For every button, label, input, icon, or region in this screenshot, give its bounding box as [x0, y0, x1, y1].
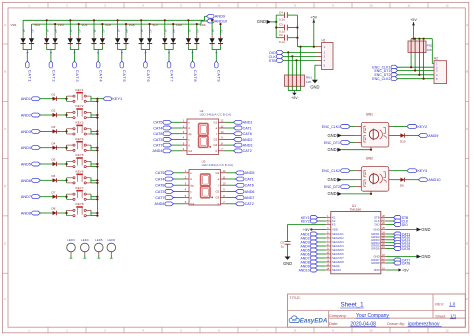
junction — [310, 228, 312, 230]
svg-text:LED3: LED3 — [67, 238, 75, 242]
ground GND — [310, 80, 319, 90]
wire — [342, 179, 355, 181]
net flag CAT2 — [234, 149, 252, 153]
svg-text:VD7: VD7 — [152, 23, 158, 27]
wire — [172, 138, 182, 140]
svg-text:C3: C3 — [279, 23, 283, 27]
wire — [398, 74, 434, 76]
wire +5V bar — [411, 38, 432, 40]
junction — [275, 26, 277, 28]
svg-text:A2: A2 — [54, 29, 58, 33]
svg-text:A2: A2 — [101, 29, 105, 33]
junction — [101, 23, 103, 25]
net flag GND — [257, 19, 271, 24]
dual diode VD7 — [152, 20, 176, 61]
junction — [65, 196, 67, 198]
wire — [318, 237, 326, 239]
svg-text:GRID6: GRID6 — [371, 247, 380, 251]
svg-text:SW2: SW2 — [366, 157, 373, 161]
junction — [418, 74, 420, 76]
junction — [370, 149, 372, 151]
wire — [172, 127, 182, 129]
net flag DIO — [394, 223, 409, 227]
svg-text:0.1u: 0.1u — [279, 17, 285, 21]
svg-text:VD6: VD6 — [129, 23, 135, 27]
svg-text:A1: A1 — [46, 29, 50, 33]
junction — [412, 38, 414, 40]
wire — [174, 184, 184, 186]
svg-text:GND: GND — [257, 19, 266, 24]
net flag DIO — [269, 50, 283, 54]
wire — [386, 242, 394, 244]
net flag CAT2 — [236, 202, 254, 206]
capacitor C5 — [280, 240, 290, 248]
svg-text:G3: G3 — [215, 196, 219, 200]
wire — [283, 55, 316, 57]
svg-text:AND4: AND4 — [153, 149, 163, 153]
svg-text:10: 10 — [369, 3, 373, 7]
title block — [288, 294, 466, 327]
svg-text:G2: G2 — [215, 190, 219, 194]
svg-text:KEY2: KEY2 — [76, 104, 84, 108]
wire — [97, 98, 103, 100]
wire — [225, 150, 234, 152]
svg-text:CAT3: CAT3 — [153, 138, 162, 142]
svg-text:Drawn By:: Drawn By: — [387, 321, 405, 326]
net flag CAT5 — [153, 120, 171, 124]
svg-text:AND8: AND8 — [21, 211, 31, 215]
svg-text:CAT8: CAT8 — [193, 70, 198, 83]
wire — [283, 59, 316, 61]
svg-text:ENC_CLK1: ENC_CLK1 — [322, 125, 340, 129]
IC U1 TM1638 — [331, 204, 381, 274]
svg-text:D5: D5 — [52, 158, 56, 162]
svg-text:KEY1: KEY1 — [112, 97, 122, 101]
dual diode VD2 — [34, 20, 58, 61]
net flag AND1 — [234, 120, 253, 124]
net flag KEY2 — [301, 219, 318, 223]
svg-text:A: A — [4, 23, 6, 27]
wire — [386, 256, 417, 258]
net flag AND4 — [301, 244, 318, 248]
junction — [96, 98, 98, 100]
junction — [96, 182, 98, 184]
net flag CAT4 — [153, 126, 171, 130]
wire — [271, 21, 276, 23]
capacitor C3 — [276, 23, 297, 34]
junction — [65, 163, 67, 165]
svg-text:AND6: AND6 — [245, 190, 255, 194]
svg-text:10K: 10K — [427, 48, 432, 52]
net flag CAT7 — [167, 61, 174, 82]
svg-text:AND9: AND9 — [215, 15, 225, 19]
wire — [431, 39, 433, 64]
net flag CLK — [394, 219, 410, 223]
diode D1 — [52, 92, 59, 101]
wire — [172, 150, 182, 152]
push button KEY5 — [67, 153, 92, 168]
svg-text:AND1: AND1 — [243, 121, 253, 125]
junction — [96, 198, 98, 200]
junction — [287, 51, 289, 53]
wire — [350, 126, 354, 128]
svg-text:D: D — [466, 184, 468, 188]
wire — [386, 236, 394, 238]
svg-text:D4: D4 — [52, 141, 56, 145]
junction — [93, 19, 95, 21]
svg-text:G3: G3 — [213, 143, 217, 147]
wire — [313, 22, 315, 47]
wire — [386, 239, 394, 241]
wire — [59, 147, 67, 149]
svg-text:GND: GND — [310, 84, 319, 89]
svg-text:AND2: AND2 — [243, 138, 253, 142]
net flag KEY1 — [103, 97, 122, 101]
wire — [59, 179, 67, 181]
net flag CAT6 — [144, 61, 151, 82]
junction — [96, 179, 98, 181]
dual diode VD6 — [129, 20, 153, 61]
svg-text:CAT4: CAT4 — [155, 177, 164, 181]
junction — [96, 100, 98, 102]
wire — [318, 269, 326, 271]
wire — [225, 133, 234, 135]
wire — [386, 245, 394, 247]
svg-text:D1: D1 — [52, 92, 56, 96]
svg-text:CAT5: CAT5 — [155, 171, 164, 175]
wire — [398, 78, 434, 80]
power +5V — [291, 91, 298, 101]
svg-text:ENC_CLK2: ENC_CLK2 — [322, 169, 340, 173]
svg-text:GRID8: GRID8 — [371, 261, 380, 265]
svg-text:A2: A2 — [219, 29, 223, 33]
dual diode VD8 — [176, 20, 200, 61]
ground GND — [417, 227, 431, 232]
net flag CAT5 — [155, 171, 173, 175]
wire rail +5V caps — [296, 15, 298, 47]
svg-text:CAT1: CAT1 — [28, 70, 33, 83]
junction — [96, 133, 98, 135]
diode D5 — [52, 158, 59, 167]
net flag CAT4 — [155, 177, 173, 181]
net flag CAT2 — [49, 61, 56, 82]
diode D8 — [52, 207, 59, 216]
svg-text:CAT1: CAT1 — [243, 126, 252, 130]
net flag AND5 — [21, 162, 41, 166]
svg-text:CAT7: CAT7 — [153, 144, 162, 148]
junction — [96, 130, 98, 132]
junction — [291, 55, 293, 57]
wire — [174, 197, 184, 199]
wire — [391, 179, 400, 181]
diode D6 — [52, 174, 59, 183]
svg-text:GND: GND — [373, 228, 379, 232]
svg-text:AND10: AND10 — [428, 178, 440, 182]
svg-text:0.1u: 0.1u — [279, 40, 285, 44]
svg-text:E: E — [466, 242, 468, 246]
svg-text:Date:: Date: — [329, 321, 338, 326]
net flag ENC_DT1 — [324, 141, 350, 145]
junction — [125, 23, 127, 25]
push button KEY4 — [67, 137, 92, 152]
svg-text:G4: G4 — [190, 202, 194, 206]
svg-text:A2: A2 — [196, 29, 200, 33]
capacitor C2 — [276, 33, 297, 44]
wire — [59, 212, 67, 214]
wire — [91, 130, 97, 132]
wire — [318, 220, 326, 222]
svg-text:KEY4: KEY4 — [76, 137, 84, 141]
junction — [140, 19, 142, 21]
svg-text:STB: STB — [269, 59, 277, 63]
wire — [386, 220, 394, 222]
wire bus AND10 — [32, 23, 202, 25]
svg-text:DIO: DIO — [402, 223, 408, 227]
svg-text:A2: A2 — [149, 29, 153, 33]
wire — [350, 142, 354, 144]
net flag AND9 — [301, 264, 318, 268]
wire — [386, 229, 417, 231]
svg-text:Sheet:: Sheet: — [435, 315, 446, 319]
wire — [310, 229, 325, 231]
svg-text:CAT1: CAT1 — [245, 177, 254, 181]
net flag AND6 — [236, 190, 255, 194]
junction — [65, 130, 67, 132]
wire — [225, 121, 234, 123]
svg-text:GND: GND — [327, 133, 336, 138]
wire — [283, 51, 316, 53]
svg-text:CAT2: CAT2 — [243, 149, 252, 153]
net flag CAT6 — [394, 247, 411, 251]
svg-text:10: 10 — [369, 329, 373, 333]
svg-text:G1: G1 — [215, 171, 219, 175]
net flag CLK — [269, 54, 284, 58]
svg-text:AND3: AND3 — [21, 130, 31, 134]
wire — [59, 98, 67, 100]
net flag CAT4 — [96, 61, 103, 82]
wire — [350, 170, 354, 172]
svg-text:KEY1: KEY1 — [76, 88, 84, 92]
IC U1 pins — [326, 215, 386, 272]
net flag AND7 — [21, 195, 41, 199]
junction — [65, 114, 67, 116]
dual diode VD4 — [81, 20, 105, 61]
svg-text:AND5: AND5 — [245, 171, 255, 175]
svg-text:AND2: AND2 — [21, 113, 31, 117]
wire — [386, 248, 394, 250]
svg-text:A2: A2 — [172, 29, 176, 33]
net flag CAT8 — [394, 261, 411, 265]
net flag AND10 — [299, 268, 318, 272]
junction — [78, 23, 80, 25]
svg-text:KEY3: KEY3 — [76, 121, 84, 125]
svg-text:A1: A1 — [187, 29, 191, 33]
svg-text:CAT5: CAT5 — [153, 121, 162, 125]
svg-text:D7: D7 — [52, 190, 56, 194]
wire — [287, 244, 289, 256]
junction — [296, 26, 298, 28]
wire — [318, 245, 326, 247]
push button KEY2 — [67, 104, 92, 119]
svg-text:GND: GND — [327, 191, 336, 196]
wire — [91, 147, 97, 149]
net flag AND5 — [301, 248, 318, 252]
wire — [91, 114, 97, 116]
net flag GND — [327, 177, 341, 182]
junction — [313, 46, 315, 48]
svg-text:CAT6: CAT6 — [245, 184, 254, 188]
LED LED4 — [81, 238, 90, 258]
power +5V — [310, 15, 317, 22]
junction — [418, 38, 420, 40]
wire — [59, 163, 67, 165]
wire — [342, 193, 372, 195]
wire — [318, 253, 326, 255]
net flag AND7 — [301, 256, 318, 260]
net flag CAT5 — [394, 244, 411, 248]
wire — [398, 66, 434, 68]
svg-text:SEG10: SEG10 — [332, 268, 341, 272]
net flag CAT8 — [155, 183, 173, 187]
wire — [318, 241, 326, 243]
junction — [117, 19, 119, 21]
net flag CAT4 — [394, 241, 411, 245]
junction — [414, 38, 416, 40]
svg-text:A2: A2 — [78, 29, 82, 33]
svg-text:KEY3: KEY3 — [417, 169, 427, 173]
wire — [350, 186, 354, 188]
junction — [96, 149, 98, 151]
svg-text:VD4: VD4 — [81, 23, 87, 27]
wire — [91, 179, 97, 181]
svg-text:AND5: AND5 — [21, 162, 31, 166]
wire — [386, 259, 394, 261]
svg-text:G2: G2 — [213, 138, 217, 142]
svg-text:VD5: VD5 — [105, 23, 111, 27]
power +5V — [399, 268, 410, 272]
wire — [172, 144, 182, 146]
svg-text:11: 11 — [408, 329, 411, 333]
resistor network RN1 — [285, 47, 313, 91]
wire — [227, 197, 236, 199]
wire — [318, 217, 326, 219]
wire — [297, 46, 316, 48]
net flag CAT3 — [153, 138, 171, 142]
7-segment display U3 — [183, 160, 233, 206]
svg-text:LED6: LED6 — [108, 238, 116, 242]
wire — [391, 135, 400, 137]
svg-text:AND3: AND3 — [243, 144, 253, 148]
wire — [225, 138, 234, 140]
wire — [40, 196, 52, 198]
power +5V — [303, 228, 310, 232]
svg-text:AND8: AND8 — [155, 202, 165, 206]
svg-text:CAT8: CAT8 — [402, 261, 411, 265]
net flag GND — [327, 133, 341, 138]
net flag ENC_DT2 — [374, 73, 397, 77]
svg-text:CAT7: CAT7 — [169, 70, 174, 83]
junction — [296, 37, 298, 39]
wire — [174, 190, 184, 192]
svg-text:1/1: 1/1 — [450, 314, 457, 319]
svg-text:dp: dp — [190, 183, 194, 187]
wire — [40, 179, 52, 181]
svg-text:VD3: VD3 — [58, 23, 64, 27]
dual diode VD1 — [11, 20, 35, 61]
wire — [318, 249, 326, 251]
wire — [40, 212, 52, 214]
diode D6 — [400, 178, 406, 188]
svg-text:LED4: LED4 — [81, 238, 89, 242]
svg-text:H1: H1 — [322, 38, 326, 42]
junction — [196, 23, 198, 25]
svg-text:A1: A1 — [140, 29, 144, 33]
wire — [59, 130, 67, 132]
wire — [40, 114, 52, 116]
svg-text:AND7: AND7 — [245, 196, 255, 200]
wire — [174, 172, 184, 174]
svg-text:KEY5: KEY5 — [76, 153, 84, 157]
svg-text:CAT9: CAT9 — [217, 70, 222, 83]
svg-text:ENC_DT1: ENC_DT1 — [324, 141, 340, 145]
junction — [69, 19, 71, 21]
net flag AND2 — [234, 138, 253, 142]
junction — [65, 179, 67, 181]
net flag AND8 — [301, 260, 318, 264]
net flag GND — [327, 191, 341, 196]
svg-text:D6: D6 — [52, 174, 56, 178]
svg-text:TITLE:: TITLE: — [290, 296, 301, 300]
svg-text:RN1: RN1 — [306, 76, 312, 80]
svg-text:CAT4: CAT4 — [153, 126, 162, 130]
svg-text:ENC_CLK2: ENC_CLK2 — [372, 77, 390, 81]
net flag AND8 — [21, 211, 41, 215]
net flag AND3 — [21, 129, 41, 133]
svg-text:GND: GND — [421, 227, 430, 232]
svg-text:GND: GND — [327, 147, 336, 152]
net flag CAT1 — [236, 177, 254, 181]
wire — [386, 217, 394, 219]
wire — [318, 257, 326, 259]
wire — [342, 135, 355, 137]
svg-text:C2: C2 — [279, 33, 283, 37]
svg-text:LED 3461(A-CC B-CA): LED 3461(A-CC B-CA) — [200, 113, 232, 117]
svg-text:GND: GND — [327, 177, 336, 182]
dual diode VD5 — [105, 20, 129, 61]
net flag AND3 — [234, 143, 253, 147]
net flag AND1 — [21, 97, 41, 101]
rotary encoder SW2 — [355, 157, 392, 194]
ground GND — [417, 254, 431, 259]
junction — [65, 98, 67, 100]
svg-text:G1: G1 — [213, 120, 217, 124]
svg-text:10K: 10K — [306, 80, 311, 84]
wire — [227, 184, 236, 186]
junction — [96, 215, 98, 217]
svg-text:A1: A1 — [69, 29, 73, 33]
net flag KEY2 — [407, 125, 427, 129]
junction — [96, 212, 98, 214]
svg-text:CAT7: CAT7 — [155, 196, 164, 200]
svg-text:CAT4: CAT4 — [99, 70, 104, 83]
junction — [149, 23, 151, 25]
wire — [342, 149, 372, 151]
svg-text:A: A — [466, 23, 468, 27]
net flag ENC_CLK1 — [322, 125, 350, 129]
LED LED6 — [107, 238, 116, 258]
svg-text:AND10: AND10 — [299, 268, 310, 272]
svg-text:A1: A1 — [116, 29, 120, 33]
